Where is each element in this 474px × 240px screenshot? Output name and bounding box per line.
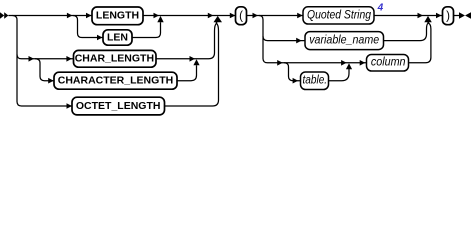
arrowhead into CHAR_LENGTH box — [66, 56, 72, 62]
wire table. merge up — [329, 69, 350, 81]
arrowhead into table. box — [293, 78, 299, 84]
wire split down to outer alternatives branch — [13, 16, 73, 107]
box keyword OCTET_LENGTH — [72, 97, 165, 115]
wire rail after open paren — [247, 15, 304, 17]
svg-text:4: 4 — [377, 3, 384, 14]
arrowhead into close paren box — [436, 13, 442, 19]
start arrow pair (diagram entry) — [0, 12, 8, 19]
box keyword CHAR_LENGTH — [74, 50, 157, 67]
box keyword CHARACTER_LENGTH — [54, 72, 177, 89]
arrowhead into CHARACTER_LENGTH box — [48, 78, 54, 84]
svg-text:variable_name: variable_name — [309, 33, 379, 47]
wire LEN branch merge up — [132, 22, 161, 37]
box keyword LEN — [103, 30, 132, 45]
box terminal table. — [301, 72, 329, 90]
svg-text:LENGTH: LENGTH — [96, 9, 139, 21]
up arrowhead at CHARACTER_LENGTH merge junction — [193, 59, 199, 65]
box terminal variable_name — [305, 32, 384, 50]
svg-text:OCTET_LENGTH: OCTET_LENGTH — [76, 100, 161, 112]
up arrowhead at LEN merge junction — [157, 16, 163, 22]
wire column row merge up — [409, 22, 431, 63]
arrowhead on CHAR_LENGTH branch entry — [29, 56, 35, 62]
svg-text:column: column — [371, 55, 406, 69]
svg-text:table.: table. — [303, 73, 328, 87]
wire variable_name branch entry — [263, 36, 305, 40]
svg-text:Quoted String: Quoted String — [307, 7, 371, 21]
wire CHAR_LENGTH branch entry — [17, 55, 74, 59]
arrowhead into variable_name box — [296, 38, 302, 44]
arrowhead into Quoted String box — [297, 13, 303, 19]
wire optional table. split down — [284, 63, 301, 81]
wire OCTET_LENGTH branch merge up — [165, 22, 219, 106]
arrowhead on main rail after LENGTH box — [154, 13, 160, 19]
box close parenthesis — [443, 7, 454, 25]
up arrowhead at argument merge junction — [424, 16, 432, 22]
box keyword LENGTH — [92, 7, 143, 25]
up arrowhead at table. merge junction — [346, 63, 352, 69]
arrowhead into open paren box — [230, 13, 236, 19]
wire variable_name branch merge up — [384, 22, 429, 41]
wire CHARACTER_LENGTH branch merge up — [177, 65, 197, 81]
arrowhead on main rail before LEN split — [67, 13, 73, 19]
up arrowhead at keyword group merge junction — [214, 16, 223, 22]
arrowhead into LEN box — [97, 35, 103, 41]
arrowhead on rail after open paren — [253, 13, 259, 19]
svg-text:(: ( — [239, 10, 243, 22]
arrowhead into OCTET_LENGTH box — [67, 103, 73, 109]
wire CHAR_LENGTH branch merge up — [156, 22, 216, 59]
arrowhead on CHAR_LENGTH rail after box — [190, 56, 196, 62]
box terminal Quoted String — [303, 7, 374, 24]
wire split down to CHARACTER_LENGTH branch — [35, 59, 54, 81]
svg-text:CHARACTER_LENGTH: CHARACTER_LENGTH — [58, 75, 174, 87]
svg-text:LEN: LEN — [107, 31, 128, 43]
wire rail after Quoted String — [374, 15, 443, 17]
arrowhead into column box — [360, 60, 366, 66]
wire split down to argument branches — [259, 16, 367, 63]
box open parenthesis — [236, 7, 247, 25]
end arrow pair (diagram exit) — [459, 12, 471, 19]
arrowhead on main rail before group merge — [208, 13, 214, 19]
wire split down to LEN branch — [73, 16, 103, 38]
svg-text:CHAR_LENGTH: CHAR_LENGTH — [75, 53, 154, 65]
svg-text:): ) — [446, 10, 450, 22]
arrowhead into LENGTH box — [86, 13, 92, 19]
arrowhead on main rail before argument merge — [418, 13, 424, 19]
wire rail after close paren — [454, 15, 460, 17]
box terminal column — [367, 55, 409, 72]
arrowhead before table. merge junction — [341, 60, 347, 66]
wire main rail — [8, 15, 235, 17]
arrowhead on table/column branch entry — [277, 60, 283, 66]
